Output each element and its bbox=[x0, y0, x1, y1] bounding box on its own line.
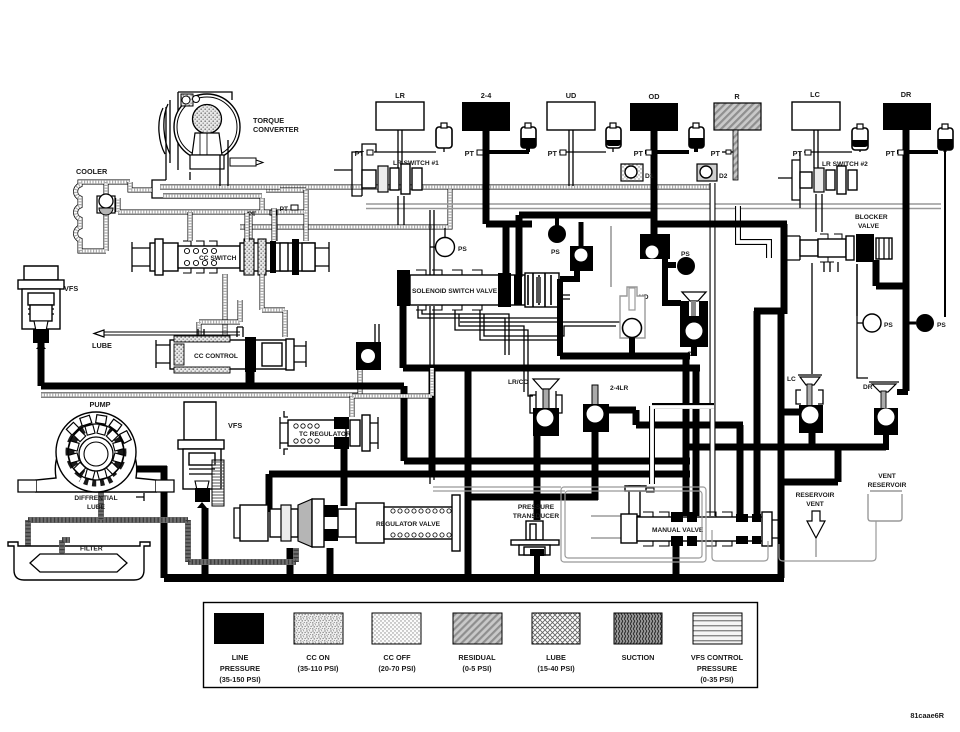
white channel from D2/R down to manual valve bbox=[710, 183, 716, 516]
D1 check ball bbox=[621, 164, 654, 181]
svg-text:VFS CONTROL: VFS CONTROL bbox=[691, 653, 744, 662]
svg-text:PS: PS bbox=[551, 249, 560, 256]
white-pair thin vertical channels bbox=[486, 183, 857, 516]
svg-text:PS: PS bbox=[681, 251, 690, 258]
svg-text:SOLENOID SWITCH VALVE: SOLENOID SWITCH VALVE bbox=[412, 288, 498, 295]
2-4 and OD feeds into solenoid switch valve bbox=[486, 221, 532, 228]
svg-text:LR/CC: LR/CC bbox=[508, 379, 528, 386]
gray double line y204-208 bbox=[366, 204, 941, 209]
svg-text:VENT: VENT bbox=[806, 501, 824, 508]
svg-text:COOLER: COOLER bbox=[76, 167, 108, 176]
dotted CC-ON main line y187 bbox=[266, 185, 710, 190]
svg-text:CC OFF: CC OFF bbox=[383, 653, 411, 662]
VFS control dotted line to CC solenoid block bbox=[41, 370, 360, 395]
white channel toward LR switch 2 bbox=[738, 206, 769, 258]
svg-text:PRESSURE: PRESSURE bbox=[697, 664, 737, 673]
svg-text:TRANSDUCER: TRANSDUCER bbox=[513, 513, 559, 520]
svg-text:R: R bbox=[734, 92, 740, 101]
hatched TC return loop to cooler bbox=[118, 182, 306, 241]
bell housing bbox=[170, 92, 232, 170]
svg-text:PT: PT bbox=[634, 149, 644, 158]
svg-text:LUBE: LUBE bbox=[546, 653, 566, 662]
svg-text:CC CONTROL: CC CONTROL bbox=[194, 353, 238, 360]
svg-text:VFS: VFS bbox=[228, 421, 242, 430]
2-4 circuit bbox=[462, 91, 536, 224]
white channel to manual valve stem bbox=[652, 406, 714, 484]
DR col into DR accum bbox=[897, 389, 908, 395]
DR circuit bbox=[883, 90, 953, 391]
svg-text:SUCTION: SUCTION bbox=[622, 653, 655, 662]
2-4LR discharge to manual valve bbox=[609, 407, 636, 414]
pedestal hatched bbox=[152, 107, 262, 198]
svg-text:MANUAL VALVE: MANUAL VALVE bbox=[652, 527, 704, 534]
svg-text:D1: D1 bbox=[645, 173, 654, 180]
svg-text:(35-110 PSI): (35-110 PSI) bbox=[298, 664, 340, 673]
svg-text:RESERVOIR: RESERVOIR bbox=[868, 482, 907, 489]
svg-text:LC: LC bbox=[787, 376, 796, 383]
svg-text:CC ON: CC ON bbox=[306, 653, 330, 662]
turbine body below ball bbox=[192, 133, 222, 155]
svg-text:(35-150 PSI): (35-150 PSI) bbox=[219, 675, 261, 684]
D2 check ball bbox=[697, 164, 728, 181]
svg-text:PT: PT bbox=[886, 149, 896, 158]
svg-text:PT: PT bbox=[280, 206, 288, 213]
svg-text:VALVE: VALVE bbox=[858, 223, 880, 230]
svg-text:LUBE: LUBE bbox=[87, 504, 106, 511]
OD circuit bbox=[630, 92, 704, 234]
svg-text:81caae6R: 81caae6R bbox=[910, 711, 944, 720]
svg-text:REGULATOR VALVE: REGULATOR VALVE bbox=[376, 521, 441, 528]
svg-text:(0-35 PSI): (0-35 PSI) bbox=[700, 675, 734, 684]
svg-text:DIFFRENTIAL: DIFFRENTIAL bbox=[74, 495, 117, 502]
svg-text:UD: UD bbox=[566, 91, 577, 100]
TC regulator links bbox=[341, 449, 348, 506]
svg-text:CC SWITCH: CC SWITCH bbox=[199, 255, 237, 262]
svg-text:PT: PT bbox=[355, 149, 365, 158]
svg-text:TC REGULATOR: TC REGULATOR bbox=[299, 431, 351, 438]
svg-text:PRESSURE: PRESSURE bbox=[220, 664, 260, 673]
UD solenoid block1 bbox=[560, 222, 593, 356]
svg-text:DR: DR bbox=[901, 90, 912, 99]
UD circuit bbox=[547, 91, 621, 186]
thin gray drain boxes under manual valve bbox=[433, 487, 876, 562]
svg-text:PS: PS bbox=[458, 246, 467, 253]
thick mid buses bbox=[560, 353, 690, 360]
svg-text:LUBE: LUBE bbox=[92, 341, 112, 350]
svg-text:VFS: VFS bbox=[64, 284, 78, 293]
svg-text:LINE: LINE bbox=[232, 653, 249, 662]
thin lines below SSV bbox=[418, 210, 620, 484]
R circuit bbox=[711, 92, 761, 180]
svg-text:RESERVOIR: RESERVOIR bbox=[796, 492, 835, 499]
svg-text:PS: PS bbox=[937, 322, 946, 329]
svg-text:(20-70 PSI): (20-70 PSI) bbox=[378, 664, 416, 673]
svg-text:PT: PT bbox=[465, 149, 475, 158]
svg-text:2-4: 2-4 bbox=[481, 91, 492, 100]
PS right pair bbox=[857, 314, 946, 332]
svg-text:PRESSURE: PRESSURE bbox=[518, 504, 555, 511]
VFS1 line bbox=[38, 331, 45, 386]
svg-text:(15-40 PSI): (15-40 PSI) bbox=[537, 664, 575, 673]
thin feeds to LC / DR funnels bbox=[811, 263, 813, 374]
bottom bus bbox=[164, 574, 784, 582]
suction gray line pan->pump area bbox=[28, 520, 296, 562]
LR circuit bbox=[355, 91, 452, 168]
svg-text:PT: PT bbox=[711, 149, 721, 158]
svg-text:PT: PT bbox=[548, 149, 558, 158]
UD accumulator (outline) bbox=[620, 287, 649, 356]
svg-text:LR SWITCH #1: LR SWITCH #1 bbox=[393, 160, 439, 167]
blocker to DR col bbox=[876, 260, 906, 286]
LC circuit bbox=[792, 90, 868, 168]
svg-text:BLOCKER: BLOCKER bbox=[855, 214, 888, 221]
svg-text:DR: DR bbox=[863, 384, 873, 391]
svg-text:LR: LR bbox=[395, 91, 405, 100]
svg-text:VENT: VENT bbox=[878, 473, 896, 480]
svg-text:OD: OD bbox=[649, 92, 660, 101]
pump suction drop bbox=[98, 492, 104, 520]
svg-text:TORQUE: TORQUE bbox=[253, 116, 284, 125]
svg-text:PT: PT bbox=[793, 149, 803, 158]
svg-text:PS: PS bbox=[884, 322, 893, 329]
svg-text:(0-5 PSI): (0-5 PSI) bbox=[462, 664, 492, 673]
OD accumulator (black with funnel) bbox=[680, 292, 708, 358]
svg-text:RESIDUAL: RESIDUAL bbox=[458, 653, 496, 662]
svg-text:FILTER: FILTER bbox=[80, 546, 103, 553]
y447 bus and LC/DR staircase bbox=[686, 444, 886, 451]
svg-text:D2: D2 bbox=[719, 173, 728, 180]
svg-text:LC: LC bbox=[810, 90, 820, 99]
OD feed line over channels bbox=[654, 221, 787, 228]
svg-text:PUMP: PUMP bbox=[89, 400, 110, 409]
LUBE arrow bbox=[92, 330, 240, 350]
svg-text:2-4LR: 2-4LR bbox=[610, 385, 629, 392]
svg-text:CONVERTER: CONVERTER bbox=[253, 125, 300, 134]
hatched verticals CC switch to CC control bbox=[190, 208, 285, 337]
OD solenoid block2 + PS bbox=[640, 234, 695, 303]
dotted branch x450 down and left y227 bbox=[240, 189, 450, 227]
